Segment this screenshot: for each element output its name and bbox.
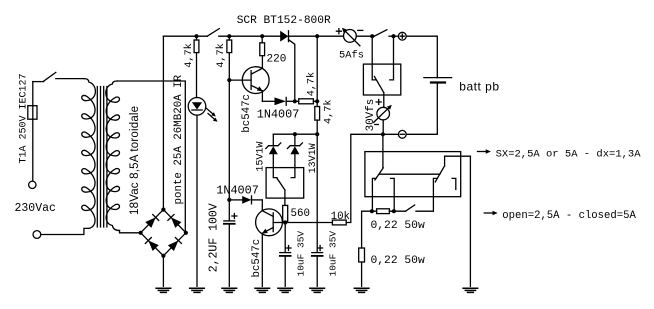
wire: Q2 base run (273, 222, 332, 224)
ground (C3) (310, 288, 325, 292)
wire: fuse to terminal L (32, 106, 34, 181)
svg-text:0,22 50w: 0,22 50w (371, 220, 425, 232)
wire: terminal N to primary bottom (41, 228, 89, 234)
svg-text:1N4007: 1N4007 (257, 108, 299, 122)
box1 blade (374, 77, 383, 93)
LED indicator (188, 98, 217, 122)
svg-text:4,7k: 4,7k (183, 43, 195, 67)
top rail switch blade (207, 29, 219, 37)
box2 blade linkage (379, 173, 440, 175)
junction dot R560/base (283, 220, 287, 224)
box2 left common (382, 134, 384, 168)
junction dot voltmeter node (381, 132, 385, 136)
svg-text:bc547c: bc547c (251, 239, 263, 278)
svg-text:SCR BT152-800R: SCR BT152-800R (237, 15, 331, 27)
mains switch S1 blade (33, 72, 56, 81)
svg-text:5Afs: 5Afs (339, 50, 364, 62)
top rail wire middle segment (219, 35, 280, 37)
junction dot rail/R1 (194, 34, 198, 38)
zener rail wire (273, 133, 317, 135)
box2 left contact B (391, 178, 395, 211)
transformer T1 secondary winding (106, 81, 120, 231)
arrow note 2 (484, 211, 497, 215)
transistor Q1 bc547c (242, 67, 269, 94)
shunt row wire middle (389, 210, 405, 212)
box2 right common (445, 156, 471, 166)
capacitor C2 10uF 35V (280, 223, 291, 256)
resistor R4 4,7k (315, 107, 320, 121)
terminal L (230Vac) (29, 181, 36, 188)
wire: LED to ground (196, 115, 198, 286)
svg-text:4,7k: 4,7k (215, 43, 227, 67)
junction dot bridge top vertex (161, 208, 165, 212)
resistor R560 (283, 205, 288, 221)
wire: row down to R7 (361, 211, 363, 248)
bridge rectifier frame (141, 210, 186, 256)
wire: R2 down to D5 anode node (228, 53, 230, 200)
svg-text:open=2,5A - closed=5A: open=2,5A - closed=5A (502, 210, 636, 222)
junction dot zener2 tap (293, 132, 297, 136)
wire: C2 to ground (284, 256, 286, 286)
junction dot rail/R4 line (315, 34, 319, 38)
resistor R220 (260, 36, 265, 55)
row switch blade (406, 205, 415, 211)
wire: R560 to base wire (284, 221, 286, 222)
transistor Q2 bc547c (256, 209, 283, 236)
selector blade (277, 178, 285, 190)
rail switch 2 blade (374, 30, 387, 37)
junction dot gate/D6 (293, 99, 297, 103)
wire: + terminal to battery (406, 36, 437, 77)
bridge diode D3 (- to left) (148, 241, 158, 252)
svg-text:15V1W: 15V1W (255, 142, 266, 172)
junction dot bridge right vertex (184, 231, 188, 235)
resistor R3 4,7k horizontal (299, 99, 314, 104)
wire: battery - down to terminal row (406, 83, 437, 135)
shunt row wire right (416, 210, 433, 212)
junction dot D5 anode (227, 198, 231, 202)
ground (bridge) (156, 288, 171, 292)
zener diode Z1 15V1W (266, 134, 281, 167)
junction dot row right of R6 (392, 209, 396, 213)
wire: R7 to ground (361, 262, 363, 286)
box2 right contact B (unused) (452, 178, 456, 189)
svg-text:10k: 10k (331, 211, 350, 223)
wire: rail down to R4 (316, 36, 318, 106)
bridge diode D4 (- to right) (168, 241, 179, 252)
box2 right blade (435, 166, 444, 182)
wire: R1 to LED (196, 53, 198, 98)
wire: SCR cathode to ammeter (289, 35, 344, 37)
diode D5 1N4007 (229, 196, 262, 204)
svg-text:30Vfs: 30Vfs (365, 99, 377, 132)
shunt row wire left (362, 210, 377, 212)
wire: box2 right common to ground (469, 156, 471, 286)
terminal - battery (398, 130, 406, 138)
capacitor C3 10uF 35V (312, 246, 323, 256)
ground (right) (463, 288, 478, 292)
svg-text:4,7k: 4,7k (322, 100, 334, 124)
junction dot rail/R220 (260, 34, 264, 38)
ground (C1) (222, 288, 237, 292)
resistor R5 10k (332, 220, 346, 225)
selector contact Z1 side (273, 168, 277, 178)
diode D6 1N4007 (262, 97, 298, 105)
svg-text:230Vac: 230Vac (15, 202, 57, 215)
capacitor C1 2,2UF 100V (224, 214, 237, 224)
wire: voltmeter to node (382, 120, 384, 134)
relay box K1 (ammeter select) (363, 64, 400, 95)
wire: selector common to R560 (284, 190, 286, 205)
zener diode Z2 13V1W (287, 134, 302, 167)
bridge diode D2 (right to +) (171, 217, 181, 228)
box2 right contact A (433, 178, 437, 211)
bridge diode D1 (left to +) (145, 217, 155, 228)
wire: switch down to fuse (32, 82, 34, 106)
svg-text:SX=2,5A or 5A - dx=1,3A: SX=2,5A or 5A - dx=1,3A (496, 149, 642, 161)
wire: base Q1 (229, 79, 251, 81)
terminal N (230Vac) (33, 231, 41, 239)
terminal + battery (398, 32, 406, 40)
resistor R6 0,22 50w (377, 209, 390, 214)
top rail wire left segment (163, 35, 207, 37)
svg-text:560: 560 (291, 208, 310, 220)
transformer T1 primary winding (82, 79, 96, 229)
transformer T1 core (97, 87, 107, 228)
wire: D5 to Q2 collector (261, 200, 263, 211)
svg-text:220: 220 (267, 54, 287, 66)
junction dot zener rail right (315, 132, 319, 136)
wire: bridge - to ground (162, 256, 164, 286)
ammeter M1 5Afs (336, 28, 362, 46)
box2 left blade (375, 168, 383, 180)
wire: ammeter to rail switch (356, 35, 374, 37)
junction dot base Q1 (227, 78, 231, 82)
box1 contact 2 (390, 36, 394, 80)
resistor R7 0,22 50w (359, 248, 365, 262)
SCR BT152-800R (280, 31, 295, 102)
svg-text:10uF 35V: 10uF 35V (328, 231, 339, 277)
wire: secondary bottom to bridge left vertex (120, 231, 141, 233)
wire: switch to transformer primary top (56, 78, 84, 80)
svg-text:10uF 35V: 10uF 35V (296, 231, 307, 277)
wire: Q1 emitter to D6 (261, 91, 263, 101)
svg-text:1N4007: 1N4007 (216, 184, 258, 198)
svg-text:ponte 25A 26MB20A IR: ponte 25A 26MB20A IR (173, 74, 185, 204)
junction dot row left (370, 209, 374, 213)
zener selector box (266, 168, 304, 199)
ground (R7) (354, 288, 369, 292)
ground (C2) (278, 288, 293, 292)
svg-text:batt pb: batt pb (459, 80, 499, 94)
wire: bridge + output up to top rail (162, 36, 164, 209)
svg-text:18Vac 8,5A toroidale: 18Vac 8,5A toroidale (129, 106, 141, 215)
wire: C3 to ground (316, 256, 318, 286)
relay box K2 (current select) (365, 152, 461, 197)
junction dot bridge bottom vertex (161, 254, 165, 258)
wire: rail to + terminal (389, 35, 398, 37)
wire: secondary top to bridge right vertex (117, 81, 185, 233)
svg-text:2,2UF 100V: 2,2UF 100V (207, 203, 220, 272)
junction dot box1 contact 2 (391, 34, 395, 38)
resistor R2 4,7k (227, 36, 232, 52)
ground (LED) (190, 288, 205, 292)
junction dot rail/R2 (227, 34, 231, 38)
box1 contact 1 (372, 36, 376, 80)
wire: - terminal to voltmeter node (383, 133, 399, 135)
wire: Q1 collector to R220 (261, 56, 263, 69)
svg-text:0,22 50w: 0,22 50w (371, 255, 425, 267)
wire: box1 common to voltmeter (383, 93, 385, 108)
wire: Q2 emitter to ground (261, 233, 263, 286)
junction dot R3/R4 line (315, 99, 319, 103)
junction dot box1 contact 1 (370, 34, 374, 38)
wire: 10k up to sense line (346, 134, 383, 222)
ground (Q2) (255, 288, 270, 292)
svg-text:T1A 250V IEC127: T1A 250V IEC127 (18, 73, 29, 163)
box2 left contact A (372, 178, 376, 211)
svg-text:bc547c: bc547c (241, 94, 253, 133)
battery batt pb (424, 78, 452, 83)
svg-text:13V1W: 13V1W (308, 143, 319, 173)
junction dot bridge left vertex (139, 231, 143, 235)
wire: C1 to ground (228, 224, 230, 286)
wire: node to capacitor C1 (228, 200, 230, 221)
voltmeter M2 30Vfs (374, 100, 392, 125)
svg-text:4,7k: 4,7k (305, 72, 317, 96)
wire: R4 down to C3 (316, 120, 318, 252)
fuse F1 T1A (28, 106, 37, 120)
selector contact Z2 side (291, 168, 295, 178)
wire: R3 to vertical line (313, 100, 317, 102)
arrow note 1 (478, 149, 491, 153)
resistor R1 4,7k (194, 36, 199, 52)
